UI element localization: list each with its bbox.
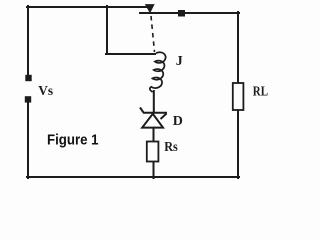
wire dashed control line [151, 16, 155, 52]
svg-text:Vs: Vs [38, 84, 53, 99]
svg-text:J: J [176, 54, 183, 69]
arrow wiper triangle [146, 5, 155, 13]
wire Rs to bottom [153, 161, 155, 178]
svg-text:Rs: Rs [164, 140, 178, 155]
wire diode to Rs [153, 128, 155, 142]
node Vs bottom terminal [25, 96, 31, 102]
wire top-right horizontal [140, 12, 239, 14]
wire left vertical upper [27, 6, 29, 75]
wire left vertical lower [27, 102, 29, 178]
diode D (zener) [140, 108, 167, 128]
wire top-left horizontal [27, 6, 146, 8]
svg-text:D: D [173, 114, 183, 129]
svg-text:RL: RL [253, 84, 268, 99]
wire bottom horizontal [27, 176, 239, 178]
wire inductor to diode [153, 91, 155, 111]
wire right vertical [237, 12, 239, 178]
wire middle vertical from top [106, 6, 108, 54]
resistor Rs [147, 142, 159, 162]
svg-text:Figure 1: Figure 1 [47, 133, 99, 149]
node Vs top terminal [25, 75, 31, 81]
node junction square on top wire [178, 10, 185, 17]
wire horizontal to inductor [106, 53, 155, 55]
resistor RL [233, 83, 244, 110]
inductor J [150, 52, 166, 92]
